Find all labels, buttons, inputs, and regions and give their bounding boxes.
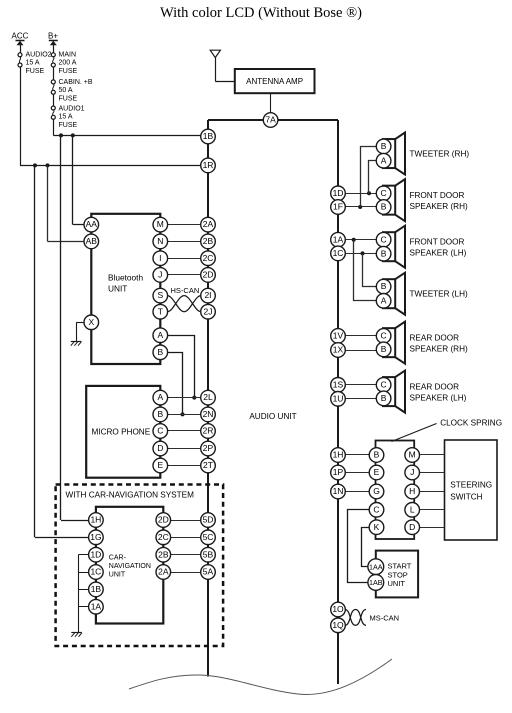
svg-text:CAR-: CAR- (109, 555, 127, 562)
svg-text:15 A: 15 A (59, 114, 73, 121)
svg-text:1D: 1D (333, 188, 344, 198)
svg-text:1A: 1A (333, 234, 344, 244)
svg-text:2C: 2C (203, 253, 214, 263)
svg-text:1S: 1S (333, 379, 344, 389)
svg-text:1D: 1D (90, 549, 101, 559)
svg-text:REAR DOOR: REAR DOOR (410, 382, 460, 391)
svg-text:2D: 2D (158, 515, 169, 525)
svg-text:CLOCK SPRING: CLOCK SPRING (440, 419, 502, 428)
svg-text:CABIN. +B: CABIN. +B (59, 79, 93, 86)
svg-text:2B: 2B (158, 549, 169, 559)
svg-text:M: M (157, 219, 164, 229)
svg-text:5A: 5A (203, 567, 214, 577)
svg-text:T: T (158, 306, 163, 316)
svg-text:C: C (381, 188, 387, 198)
svg-text:E: E (157, 460, 163, 470)
svg-text:1AA: 1AA (369, 562, 383, 571)
svg-text:K: K (374, 522, 380, 532)
svg-text:B: B (381, 141, 387, 151)
svg-text:2D: 2D (203, 270, 214, 280)
svg-text:2J: 2J (204, 306, 213, 316)
svg-text:2B: 2B (203, 236, 214, 246)
svg-text:A: A (381, 155, 387, 165)
svg-text:2N: 2N (203, 409, 214, 419)
svg-text:START: START (388, 562, 412, 571)
svg-text:FRONT DOOR: FRONT DOOR (410, 191, 465, 200)
svg-text:5B: 5B (203, 549, 214, 559)
svg-text:1F: 1F (333, 202, 343, 212)
svg-text:B: B (381, 248, 387, 258)
svg-text:MAIN: MAIN (59, 52, 77, 59)
svg-text:5C: 5C (203, 532, 214, 542)
svg-text:1O: 1O (332, 604, 344, 614)
svg-text:2A: 2A (203, 219, 214, 229)
svg-text:FUSE: FUSE (26, 68, 45, 75)
svg-text:B: B (157, 347, 163, 357)
svg-text:C: C (373, 504, 379, 514)
svg-text:J: J (158, 270, 162, 280)
svg-text:2C: 2C (158, 532, 169, 542)
svg-text:5D: 5D (203, 515, 214, 525)
svg-text:AA: AA (86, 219, 98, 229)
svg-text:D: D (409, 522, 415, 532)
svg-text:1C: 1C (333, 248, 344, 258)
svg-text:G: G (373, 486, 380, 496)
svg-text:B: B (381, 202, 387, 212)
svg-text:NAVIGATION: NAVIGATION (109, 563, 151, 570)
svg-text:C: C (381, 234, 387, 244)
svg-text:1H: 1H (90, 515, 101, 525)
svg-text:M: M (409, 450, 416, 460)
svg-text:B: B (374, 450, 380, 460)
svg-text:SPEAKER (LH): SPEAKER (LH) (410, 394, 467, 403)
svg-text:A: A (157, 392, 163, 402)
svg-text:1B: 1B (91, 584, 102, 594)
svg-text:50 A: 50 A (59, 87, 73, 94)
svg-text:C: C (381, 379, 387, 389)
svg-text:AUDIO UNIT: AUDIO UNIT (249, 412, 296, 421)
svg-text:AUDIO1: AUDIO1 (59, 106, 85, 113)
svg-text:B: B (381, 393, 387, 403)
svg-text:B: B (157, 409, 163, 419)
svg-text:A: A (381, 295, 387, 305)
svg-text:AB: AB (86, 236, 98, 246)
svg-text:FUSE: FUSE (59, 68, 78, 75)
svg-text:B: B (381, 281, 387, 291)
svg-text:STOP: STOP (388, 570, 408, 579)
svg-text:J: J (410, 467, 414, 477)
svg-text:1P: 1P (333, 467, 344, 477)
svg-text:2I: 2I (204, 290, 211, 300)
svg-text:E: E (374, 467, 380, 477)
svg-text:1AB: 1AB (369, 578, 383, 587)
svg-text:SWITCH: SWITCH (450, 493, 482, 502)
svg-text:L: L (410, 504, 415, 514)
svg-text:A: A (157, 330, 163, 340)
svg-text:MICRO PHONE: MICRO PHONE (92, 428, 151, 437)
svg-text:2P: 2P (203, 443, 214, 453)
svg-text:C: C (381, 331, 387, 341)
svg-text:SPEAKER (LH): SPEAKER (LH) (410, 249, 467, 258)
svg-text:1H: 1H (333, 450, 344, 460)
svg-text:N: N (157, 236, 163, 246)
svg-text:REAR DOOR: REAR DOOR (410, 333, 460, 342)
svg-text:1N: 1N (333, 486, 344, 496)
svg-text:1A: 1A (91, 601, 102, 611)
svg-text:C: C (157, 426, 163, 436)
svg-text:1R: 1R (203, 160, 214, 170)
svg-text:15 A: 15 A (26, 60, 40, 67)
svg-text:2A: 2A (158, 567, 169, 577)
svg-text:2L: 2L (203, 392, 213, 402)
svg-text:1G: 1G (90, 532, 101, 542)
svg-text:ACC: ACC (12, 32, 29, 41)
svg-text:STEERING: STEERING (450, 481, 492, 490)
svg-text:AUDIO2: AUDIO2 (26, 52, 52, 59)
svg-text:FUSE: FUSE (59, 122, 78, 129)
svg-text:X: X (88, 317, 94, 327)
svg-text:D: D (157, 443, 163, 453)
svg-text:TWEETER (RH): TWEETER (RH) (410, 150, 470, 159)
svg-text:1C: 1C (90, 567, 101, 577)
svg-text:1U: 1U (333, 393, 344, 403)
svg-text:HS-CAN: HS-CAN (171, 286, 200, 295)
svg-text:UNIT: UNIT (108, 284, 127, 294)
svg-text:2R: 2R (203, 426, 214, 436)
svg-text:S: S (157, 290, 163, 300)
svg-text:I: I (159, 253, 161, 263)
svg-text:MS-CAN: MS-CAN (370, 614, 400, 623)
svg-text:Bluetooth: Bluetooth (108, 273, 143, 283)
svg-text:200 A: 200 A (59, 60, 77, 67)
svg-text:1V: 1V (333, 331, 344, 341)
svg-text:B: B (381, 344, 387, 354)
svg-text:1Q: 1Q (332, 620, 344, 630)
svg-text:WITH CAR-NAVIGATION SYSTEM: WITH CAR-NAVIGATION SYSTEM (66, 491, 195, 500)
svg-text:SPEAKER (RH): SPEAKER (RH) (410, 202, 469, 211)
svg-text:FUSE: FUSE (59, 95, 78, 102)
svg-text:B+: B+ (48, 32, 58, 41)
svg-text:1X: 1X (333, 345, 344, 355)
svg-text:7A: 7A (265, 115, 276, 125)
svg-text:UNIT: UNIT (388, 579, 406, 588)
svg-text:With color LCD (Without Bose ®: With color LCD (Without Bose ®) (160, 5, 362, 21)
svg-text:2T: 2T (203, 460, 213, 470)
svg-text:SPEAKER (RH): SPEAKER (RH) (410, 345, 469, 354)
svg-text:TWEETER (LH): TWEETER (LH) (410, 290, 468, 299)
svg-text:UNIT: UNIT (109, 572, 126, 579)
svg-text:ANTENNA AMP: ANTENNA AMP (246, 77, 303, 86)
svg-text:H: H (409, 486, 415, 496)
svg-text:1B: 1B (203, 131, 214, 141)
svg-text:FRONT DOOR: FRONT DOOR (410, 238, 465, 247)
